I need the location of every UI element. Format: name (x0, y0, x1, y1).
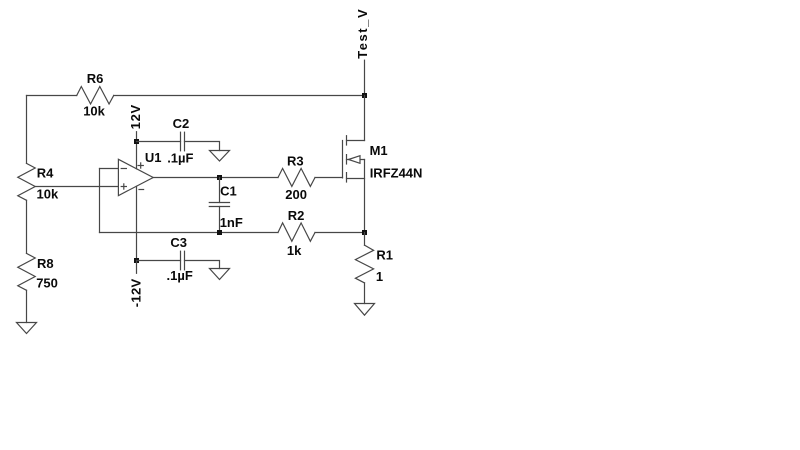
wire R8 to ground (26, 290, 28, 322)
node C1 bottom junction (217, 230, 222, 235)
svg-text:M1: M1 (370, 143, 388, 158)
op-amp V- power lead (136, 186, 138, 260)
gate bar (342, 141, 344, 178)
svg-text:1nF: 1nF (220, 215, 243, 230)
wire Test_V stub (364, 60, 366, 95)
resistor R2 (278, 223, 315, 241)
svg-text:C3: C3 (170, 235, 187, 250)
node source/R2/R1 junction (362, 230, 367, 235)
wire source vertical (364, 160, 366, 233)
op-amp noninverting input plus glyph (121, 184, 126, 189)
wire -12V stub (136, 261, 138, 274)
wire feedback vertical (99, 169, 101, 233)
body arrow head (349, 156, 361, 164)
svg-text:C1: C1 (220, 183, 237, 198)
wire left rail down to R4 (26, 96, 28, 164)
node V+ junction (134, 139, 139, 144)
wire R2 to source node (315, 232, 365, 234)
svg-text:1: 1 (376, 269, 383, 284)
body arrow line (347, 159, 365, 161)
svg-text:U1: U1 (145, 150, 162, 165)
wire top rail right segment (114, 95, 365, 97)
channel middle dash (346, 155, 348, 164)
wire R4 to R8 (26, 200, 28, 253)
node V-/C3 junction (134, 258, 139, 263)
svg-text:-12V: -12V (128, 279, 143, 308)
svg-text:R4: R4 (37, 166, 54, 181)
op-amp inverting input minus glyph (121, 168, 126, 170)
ground (C2) (210, 151, 230, 162)
resistor R6 (77, 87, 114, 105)
svg-text:R2: R2 (288, 208, 305, 223)
wire drain vertical (364, 96, 366, 141)
ground (C3) (210, 269, 230, 280)
svg-text:10k: 10k (83, 103, 105, 118)
wire inverting input lead (100, 168, 119, 170)
svg-text:12V: 12V (128, 104, 143, 129)
node output/C1 junction (217, 175, 222, 180)
ground (R1) (355, 304, 375, 316)
wire R4 tap to op-amp noninverting input (35, 186, 118, 188)
svg-text:10k: 10k (37, 186, 59, 201)
drain horizontal (347, 140, 365, 142)
svg-text:R3: R3 (287, 153, 304, 168)
svg-text:R1: R1 (376, 247, 393, 262)
svg-text:750: 750 (36, 276, 58, 291)
op-amp U1 triangle (118, 159, 153, 195)
svg-text:1k: 1k (287, 243, 302, 258)
op-amp V+ plus glyph (138, 163, 143, 168)
capacitor C1 (209, 178, 229, 233)
svg-text:R6: R6 (87, 71, 104, 86)
wire top rail left segment (27, 95, 77, 97)
transistor M1 (NMOS IRFZ44N) (343, 136, 365, 182)
channel top dash (346, 136, 348, 145)
node Test_V junction (362, 93, 367, 98)
capacitor C2 (137, 132, 220, 151)
wire R3 to gate (315, 177, 343, 179)
resistor R4 (18, 163, 35, 200)
svg-text:200: 200 (285, 187, 307, 202)
resistor R1 (355, 233, 373, 304)
capacitor C3 (137, 251, 220, 270)
wire 12V stub (136, 132, 138, 142)
resistor R3 (278, 168, 315, 186)
svg-text:IRFZ44N: IRFZ44N (370, 166, 423, 181)
op-amp V+ power lead (136, 142, 138, 169)
ground (left, below R8) (17, 323, 37, 334)
op-amp V- minus glyph (139, 189, 144, 191)
svg-text:C2: C2 (173, 116, 190, 131)
svg-text:R8: R8 (37, 256, 54, 271)
svg-text:.1µF: .1µF (167, 268, 193, 283)
source horizontal (347, 178, 365, 180)
svg-text:.1µF: .1µF (167, 151, 193, 166)
wire op-amp output (153, 177, 278, 179)
wire feedback bottom rail (100, 232, 279, 234)
channel bottom dash (346, 173, 348, 182)
svg-text:Test_V: Test_V (355, 8, 370, 59)
resistor R8 (18, 253, 35, 290)
